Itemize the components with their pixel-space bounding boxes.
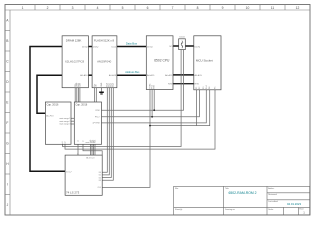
wire data bus FLASH-CPU: [117, 46, 146, 48]
svg-text:7: 7: [172, 6, 174, 10]
ground: [99, 92, 104, 95]
svg-text:Cap. 20/16: Cap. 20/16: [76, 103, 88, 106]
title block: [174, 186, 310, 214]
wire Phi2 net Cap2 to MCU: [102, 90, 200, 117]
svg-text:DRAM 128K: DRAM 128K: [66, 39, 82, 43]
svg-text:D3: D3: [99, 180, 101, 182]
U104: [179, 36, 186, 49]
wire Cap2 strobe jog to latch: [83, 144, 102, 155]
DRAM U101: [62, 36, 88, 88]
wire uP R/W net Cap2 to MCU: [102, 90, 207, 123]
svg-text:Reviewed:: Reviewed:: [268, 194, 277, 196]
MCU Socket U105: [194, 36, 221, 90]
wire address bus DRAM-FLASH: [88, 74, 92, 76]
wire DRAM pin bundle to Cap2: [75, 88, 80, 102]
svg-text:9: 9: [222, 6, 224, 10]
wire data bus CPU-U104: [173, 45, 179, 47]
svg-text:o2: o2: [65, 141, 67, 143]
svg-text:Address Bus: Address Bus: [125, 71, 140, 74]
wire Cap2 bottom pins to latch: [78, 144, 95, 155]
svg-text:DQ3: DQ3: [113, 83, 115, 87]
wire CPU pin1 down to latch: [102, 90, 150, 188]
svg-text:BLIO 0-3: BLIO 0-3: [86, 158, 95, 160]
wire U104 left pin to Cap1 pin1: [63, 50, 182, 147]
svg-text:1: 1: [22, 6, 24, 10]
svg-text:F: F: [6, 121, 8, 125]
svg-text:R/W: R/W: [154, 85, 156, 89]
CPU U103: [146, 36, 173, 90]
node R/W junction: [153, 109, 155, 111]
svg-text:AM29F040: AM29F040: [97, 59, 112, 63]
capacitor bank Cap2: [74, 102, 101, 144]
svg-text:P4: P4: [209, 87, 211, 89]
svg-text:MCU Socket: MCU Socket: [196, 59, 213, 63]
svg-text:GND: GND: [101, 82, 103, 87]
wire Cap1 pin2 to MCU pin5: [65, 90, 215, 149]
svg-text:Last edited:: Last edited:: [268, 200, 278, 203]
wire CPU pin2: [151, 90, 153, 117]
svg-text:U104: U104: [179, 36, 185, 38]
svg-text:Din/Q: Din/Q: [195, 46, 201, 48]
svg-text:Cap. 20/16: Cap. 20/16: [47, 103, 59, 106]
wire address bus FLASH-CPU: [117, 74, 146, 76]
svg-text:Din/Q: Din/Q: [93, 46, 99, 48]
node Phi2 junction: [151, 116, 153, 118]
svg-text:Data Bus: Data Bus: [126, 41, 138, 45]
svg-text:6502-RAM-ROM 2: 6502-RAM-ROM 2: [228, 191, 256, 195]
svg-text:04.01.2023: 04.01.2023: [287, 202, 301, 206]
svg-text:10: 10: [246, 6, 250, 10]
svg-text:G: G: [6, 141, 9, 145]
wire data bus left elbow to latch: [30, 47, 65, 172]
wire CPU pin3: [153, 90, 155, 111]
wire data bus U104-MCU: [185, 45, 194, 47]
svg-text:3: 3: [72, 6, 74, 10]
svg-text:AC-P13: AC-P13: [46, 115, 54, 118]
frame column numbers: [22, 6, 300, 10]
svg-text:Author:: Author:: [268, 187, 275, 190]
svg-text:D 0-7: D 0-7: [66, 171, 72, 173]
svg-text:SO: SO: [169, 46, 172, 48]
frame column ticks: [35, 5, 285, 11]
frame row letters: [6, 18, 9, 207]
title block labels: [175, 187, 304, 211]
node CPU pin1 junction: [149, 125, 151, 127]
svg-text:4: 4: [97, 6, 99, 10]
svg-text:5: 5: [122, 6, 124, 10]
svg-text:Phi 2: Phi 2: [95, 117, 101, 119]
svg-text:Din/Q: Din/Q: [82, 46, 88, 48]
capacitor bank Cap1: [45, 102, 71, 144]
wire data bus DRAM-FLASH: [88, 46, 92, 48]
latch 74LS273: [65, 153, 102, 195]
svg-text:Dout: Dout: [112, 45, 117, 48]
svg-text:Drawing no:: Drawing no:: [225, 208, 236, 211]
svg-text:Scale:: Scale:: [268, 209, 274, 211]
svg-text:FLASH 512K x 8: FLASH 512K x 8: [94, 39, 115, 43]
svg-text:Phi2: Phi2: [206, 85, 208, 89]
svg-text:P3: P3: [203, 87, 205, 89]
wire MCU pin stub down: [196, 90, 198, 126]
svg-text:main range 3: main range 3: [59, 123, 70, 126]
wire FLASH data bundle to latch pins: [102, 88, 113, 181]
svg-text:11: 11: [271, 6, 275, 10]
svg-text:File:: File:: [175, 188, 179, 190]
svg-text:8: 8: [197, 6, 199, 10]
wire FLASH stubs to Cap2: [94, 88, 96, 102]
wire address bus CPU-MCU: [173, 74, 194, 76]
wire address bus left elbow to Cap1: [37, 75, 62, 113]
svg-text:Din/Q: Din/Q: [147, 46, 153, 48]
FLASH U102: [92, 36, 117, 88]
svg-text:D0: D0: [99, 172, 101, 174]
svg-text:R/W: R/W: [96, 110, 100, 112]
svg-text:P1: P1: [196, 87, 198, 89]
svg-text:6502 CPU: 6502 CPU: [154, 59, 170, 63]
svg-text:main range 2: main range 2: [59, 120, 70, 123]
svg-text:A0-A15: A0-A15: [165, 74, 173, 77]
svg-text:A0-A18: A0-A18: [109, 74, 117, 77]
wire CPU pin1 branch to MCU: [150, 90, 210, 126]
frame row ticks: [5, 31, 10, 195]
wire main range stubs: [71, 118, 74, 124]
svg-text:P5: P5: [215, 87, 217, 89]
wire FLASH ground stub: [101, 88, 103, 92]
wire control bus CPU-MCU: [173, 83, 194, 85]
svg-text:2: 2: [77, 153, 79, 154]
svg-text:6: 6: [147, 6, 149, 10]
wire R/W net Cap2 to U104: [102, 50, 184, 111]
svg-text:main range 1: main range 1: [59, 117, 70, 120]
svg-text:D2: D2: [99, 177, 101, 179]
svg-text:74 LS 273: 74 LS 273: [66, 191, 80, 195]
svg-text:2: 2: [47, 6, 49, 10]
svg-text:A0-A15: A0-A15: [195, 74, 203, 77]
svg-text:b3: b3: [95, 140, 97, 142]
svg-text:Title:: Title:: [225, 187, 230, 190]
svg-text:c1: c1: [78, 140, 80, 142]
svg-text:P2: P2: [199, 87, 201, 89]
svg-text:I: I: [7, 182, 8, 186]
svg-text:62LH1027PC8: 62LH1027PC8: [65, 59, 84, 63]
svg-text:uP R/W: uP R/W: [92, 123, 99, 125]
svg-text:Sheet(s):: Sheet(s):: [175, 208, 183, 211]
svg-text:A0-A15: A0-A15: [147, 74, 155, 77]
svg-text:12: 12: [296, 6, 300, 10]
svg-text:A0-A16: A0-A16: [80, 74, 88, 77]
